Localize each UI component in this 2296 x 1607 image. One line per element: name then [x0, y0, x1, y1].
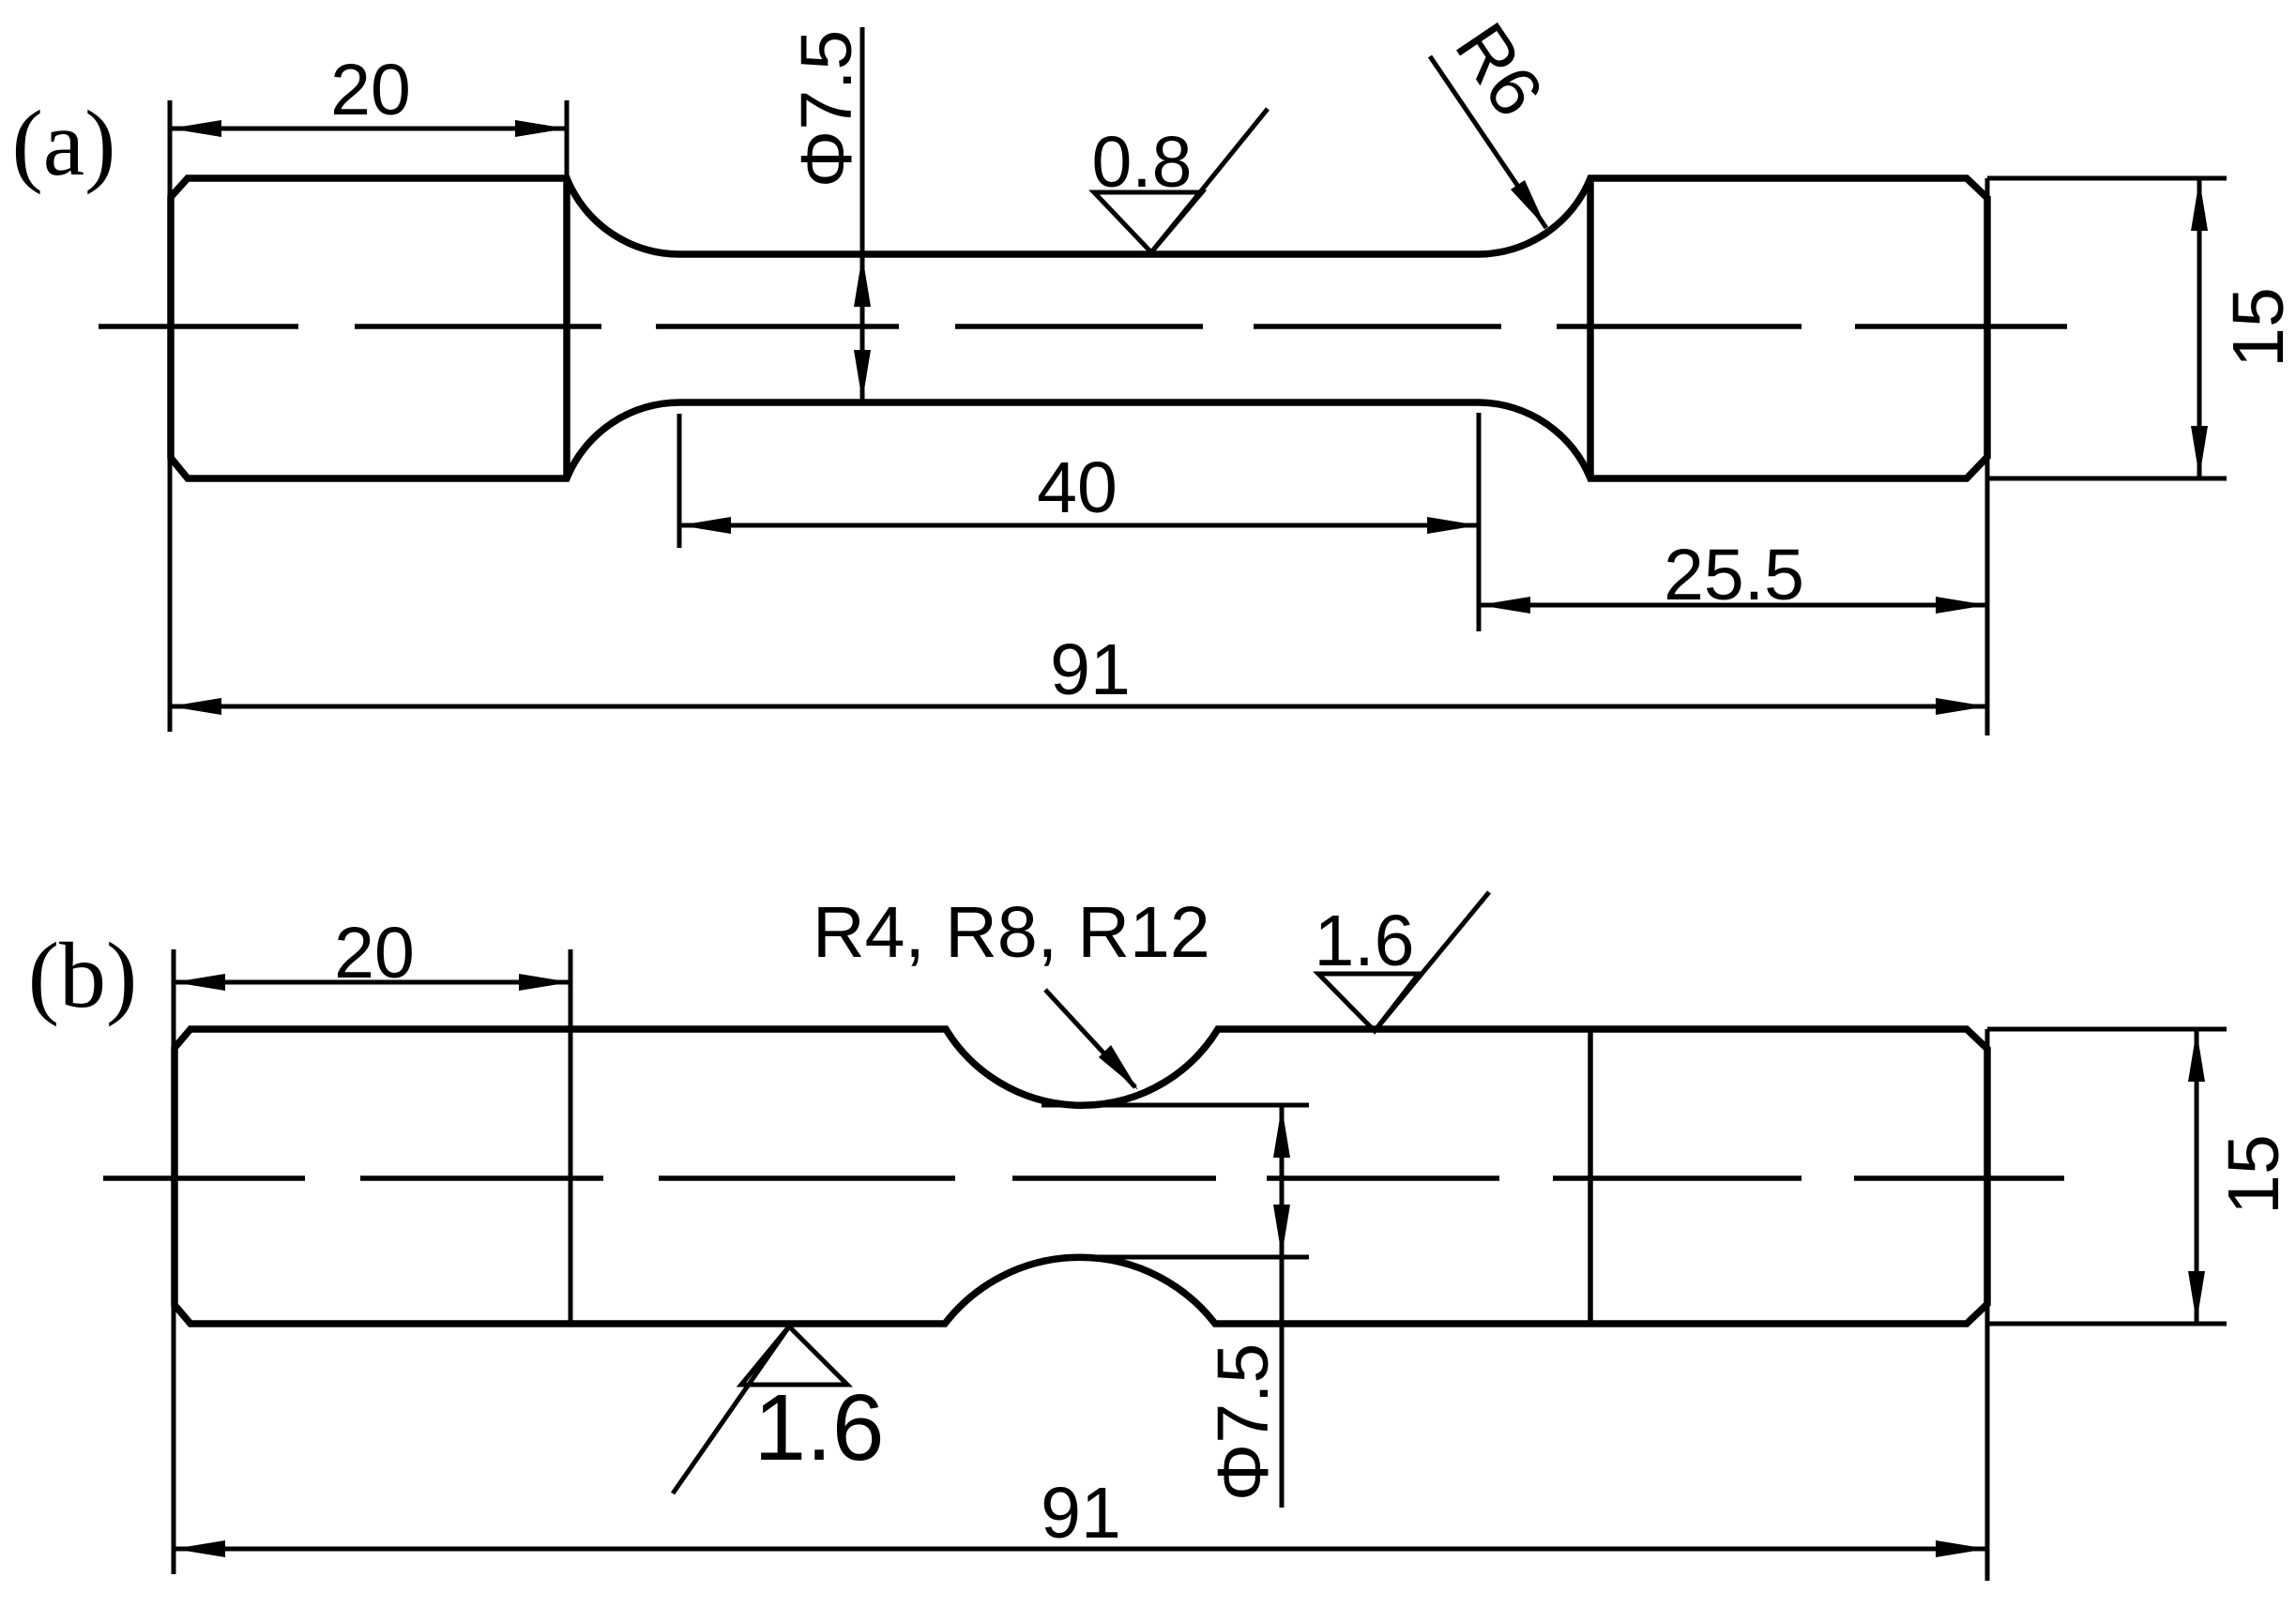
svg-text:91: 91: [1041, 1473, 1121, 1554]
specimen B grip boundary left (20 extension): [569, 949, 573, 1324]
specimen B outline: [175, 1029, 1987, 1324]
dimension 20 (a): [170, 100, 567, 732]
specimen A left grip boundary: [563, 178, 570, 478]
dimension 91 (b): [174, 1029, 1987, 1581]
svg-text:0.8: 0.8: [1091, 122, 1192, 203]
svg-text:(b): (b): [28, 923, 138, 1027]
svg-text:15: 15: [2213, 1134, 2294, 1215]
dimension phi7.5 (b): [1273, 1105, 1290, 1508]
roughness 1.6 bottom (b): [673, 1327, 847, 1493]
svg-text:Φ7.5: Φ7.5: [1203, 1343, 1284, 1501]
specimen A right grip boundary: [1587, 178, 1594, 478]
specimen B grip boundary right: [1588, 1029, 1593, 1324]
dimension 91 (a): [170, 698, 1987, 715]
dimension 40 (a): [679, 413, 1479, 631]
centerline A: [99, 324, 2067, 329]
svg-text:R4, R8, R12: R4, R8, R12: [813, 892, 1210, 973]
svg-text:1.6: 1.6: [753, 1375, 884, 1480]
dimension phi7.5 (a): [854, 27, 871, 402]
specimen A outline: [171, 178, 1987, 478]
dimension 15 (b): [1987, 1029, 2227, 1324]
radius label R6 (a): [1430, 56, 1546, 228]
svg-text:20: 20: [334, 913, 415, 993]
svg-text:91: 91: [1050, 629, 1131, 710]
svg-text:15: 15: [2218, 287, 2296, 368]
svg-text:1.6: 1.6: [1314, 901, 1414, 981]
svg-text:Φ7.5: Φ7.5: [786, 30, 867, 188]
dimension 20 (b): [174, 949, 570, 1574]
leader arrow R4R8R12: [1045, 990, 1138, 1090]
svg-text:40: 40: [1037, 447, 1118, 528]
dimension 25.5 (a): [1479, 178, 1987, 735]
roughness 1.6 top (b): [1318, 892, 1489, 1031]
centerline B: [103, 1175, 2064, 1181]
svg-text:20: 20: [330, 50, 411, 130]
svg-text:25.5: 25.5: [1664, 535, 1804, 615]
svg-text:(a): (a): [12, 91, 116, 195]
dimension 15 (a): [1987, 178, 2227, 478]
roughness 0.8 (a): [1094, 109, 1268, 252]
ligament extension lines (b): [1042, 1105, 1309, 1257]
